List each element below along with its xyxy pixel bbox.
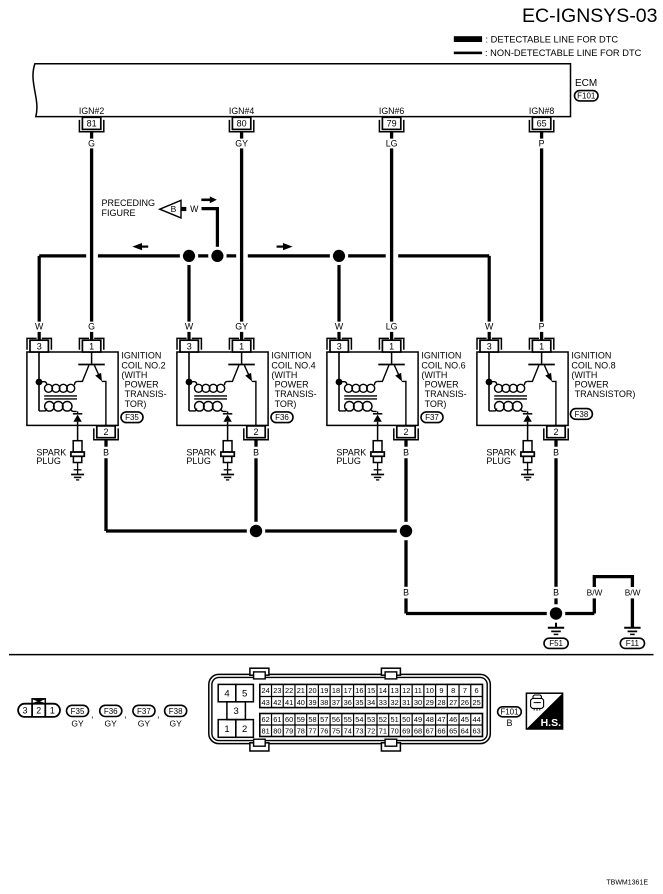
svg-text:B: B bbox=[553, 588, 559, 598]
harness view flag bbox=[32, 699, 45, 704]
svg-text:W: W bbox=[335, 322, 344, 332]
svg-text:F36: F36 bbox=[104, 707, 118, 716]
spark plug wire, coil NO.8 bbox=[527, 426, 529, 441]
svg-text:F35: F35 bbox=[125, 413, 139, 422]
svg-text:37: 37 bbox=[332, 698, 340, 707]
svg-text:77: 77 bbox=[308, 726, 316, 735]
svg-text:78: 78 bbox=[297, 726, 305, 735]
svg-text:B: B bbox=[103, 448, 109, 458]
svg-text:B/W: B/W bbox=[587, 588, 603, 598]
flow arrow right (on bus) bbox=[283, 243, 293, 250]
svg-text:43: 43 bbox=[262, 698, 270, 707]
svg-text:(WITH: (WITH bbox=[421, 370, 447, 380]
ground F51 bbox=[555, 614, 557, 628]
junction dot bus/coil2 bbox=[180, 247, 198, 265]
svg-text:62: 62 bbox=[262, 715, 270, 724]
svg-text:26: 26 bbox=[461, 698, 469, 707]
svg-text:76: 76 bbox=[320, 726, 328, 735]
spark plug wire, coil NO.4 bbox=[227, 426, 229, 441]
wire B/W right bbox=[631, 578, 634, 587]
svg-text:56: 56 bbox=[332, 715, 340, 724]
junction dot bus/W wire bbox=[208, 247, 226, 265]
svg-text:33: 33 bbox=[379, 698, 387, 707]
svg-text:65: 65 bbox=[449, 726, 457, 735]
svg-text:W: W bbox=[190, 204, 199, 214]
svg-text:44: 44 bbox=[473, 715, 481, 724]
svg-text:4: 4 bbox=[224, 688, 229, 699]
internal junction dot, coil NO.2 bbox=[36, 379, 43, 386]
svg-text:F37: F37 bbox=[137, 707, 151, 716]
svg-text:B: B bbox=[553, 448, 559, 458]
svg-text:G: G bbox=[88, 138, 95, 148]
svg-text:19: 19 bbox=[320, 686, 328, 695]
wire B from pin 2, coil NO.8 bbox=[554, 440, 557, 447]
svg-text:60: 60 bbox=[285, 715, 293, 724]
svg-text:49: 49 bbox=[414, 715, 422, 724]
power transistor, coil NO.8 bbox=[541, 352, 543, 364]
pin 1 of coil NO.6 bbox=[379, 338, 389, 349]
svg-text:GY: GY bbox=[235, 138, 248, 148]
svg-text:TOR): TOR) bbox=[275, 399, 297, 409]
svg-text:41: 41 bbox=[285, 698, 293, 707]
svg-text:IGNITION: IGNITION bbox=[271, 351, 311, 361]
svg-text:31: 31 bbox=[402, 698, 410, 707]
B/W bracket top wire bbox=[594, 577, 632, 579]
svg-text:GY: GY bbox=[235, 322, 248, 332]
ground F11 bbox=[624, 627, 640, 629]
svg-text:28: 28 bbox=[437, 698, 445, 707]
transformer core, coil NO.6 bbox=[344, 395, 377, 397]
svg-text:21: 21 bbox=[297, 686, 305, 695]
spark plug ground, coil NO.8 bbox=[521, 474, 534, 476]
svg-text:(WITH: (WITH bbox=[121, 370, 147, 380]
svg-text:F11: F11 bbox=[626, 639, 640, 648]
connector F37 bbox=[421, 412, 443, 423]
pin 2 of coil NO.8 bbox=[547, 426, 565, 438]
svg-text:80: 80 bbox=[237, 119, 247, 129]
svg-text:COIL NO.4: COIL NO.4 bbox=[271, 360, 315, 370]
wire W drop to coil pin 3 at x=189.0 bbox=[187, 256, 190, 322]
svg-text:IGNITION: IGNITION bbox=[121, 351, 161, 361]
svg-text:F51: F51 bbox=[549, 639, 563, 648]
svg-text:IGNITION: IGNITION bbox=[571, 351, 611, 361]
svg-text:22: 22 bbox=[285, 686, 293, 695]
transformer core, coil NO.8 bbox=[494, 395, 527, 397]
ignition coil NO.4 module box bbox=[177, 352, 268, 425]
connector F35 bbox=[121, 412, 143, 423]
svg-text:2: 2 bbox=[103, 427, 108, 437]
ignition coil secondary winding, coil NO.2 bbox=[39, 408, 47, 411]
svg-text:1: 1 bbox=[389, 341, 394, 351]
svg-text:34: 34 bbox=[367, 698, 375, 707]
spark plug wire, coil NO.6 bbox=[377, 426, 379, 441]
wire B from pin 2, coil NO.4 bbox=[254, 440, 257, 447]
secondary output diode, coil NO.4 bbox=[227, 411, 229, 413]
internal wire from pin 3, coil NO.4 bbox=[188, 352, 190, 411]
svg-text:3: 3 bbox=[23, 706, 28, 716]
svg-text:W: W bbox=[35, 322, 44, 332]
internal wire from pin 3, coil NO.6 bbox=[338, 352, 340, 411]
svg-text:14: 14 bbox=[379, 686, 387, 695]
wire B from pin 2, coil NO.6 bbox=[404, 440, 407, 447]
svg-text:42: 42 bbox=[273, 698, 281, 707]
connector F38 bbox=[570, 409, 592, 420]
connector icon in H.S. bbox=[531, 698, 544, 708]
svg-text:F35: F35 bbox=[71, 707, 85, 716]
flow arrow right (top) bbox=[201, 199, 210, 202]
internal junction dot, coil NO.8 bbox=[486, 379, 493, 386]
wire G from pin 81 bbox=[90, 132, 93, 139]
svg-text:PLUG: PLUG bbox=[36, 456, 61, 466]
svg-text:W: W bbox=[185, 322, 194, 332]
legend detectable line bbox=[454, 36, 482, 42]
secondary output diode, coil NO.8 bbox=[527, 411, 529, 413]
svg-text:2: 2 bbox=[403, 427, 408, 437]
svg-text:52: 52 bbox=[379, 715, 387, 724]
svg-text:2: 2 bbox=[36, 706, 41, 716]
svg-text:9: 9 bbox=[439, 686, 443, 695]
svg-text:TRANSIS-: TRANSIS- bbox=[425, 389, 467, 399]
svg-text:3: 3 bbox=[234, 706, 239, 717]
junction dot B bus/coil NO.4 bbox=[247, 522, 266, 541]
label gap for B on coil NO.8 wire bbox=[550, 587, 563, 599]
svg-text:35: 35 bbox=[355, 698, 363, 707]
svg-text:17: 17 bbox=[344, 686, 352, 695]
svg-text:: NON-DETECTABLE LINE FOR DTC: : NON-DETECTABLE LINE FOR DTC bbox=[485, 48, 642, 58]
svg-text:TRANSISTOR): TRANSISTOR) bbox=[575, 389, 636, 399]
connector F36 bbox=[271, 412, 293, 423]
wire W drop to coil pin 3 at x=39.2 bbox=[38, 256, 41, 322]
svg-text:81: 81 bbox=[87, 119, 97, 129]
H.S. symbol bbox=[526, 693, 562, 729]
svg-text:F101: F101 bbox=[500, 708, 519, 717]
transformer core, coil NO.4 bbox=[194, 395, 227, 397]
connector key cells 4 5 3 1 2 bbox=[218, 684, 236, 701]
svg-text:GY: GY bbox=[169, 719, 182, 729]
ignition coil NO.6 module box bbox=[327, 352, 418, 425]
svg-text:8: 8 bbox=[451, 686, 455, 695]
svg-text:71: 71 bbox=[379, 726, 387, 735]
svg-text:46: 46 bbox=[449, 715, 457, 724]
svg-text:11: 11 bbox=[414, 686, 422, 695]
spark plug wire, coil NO.2 bbox=[77, 426, 79, 441]
svg-text:32: 32 bbox=[390, 698, 398, 707]
svg-text:1: 1 bbox=[224, 724, 229, 735]
wire B/W left bbox=[593, 598, 596, 613]
svg-text:(WITH: (WITH bbox=[271, 370, 297, 380]
spark plug ground, coil NO.4 bbox=[221, 474, 234, 476]
connector F37 (GY) bbox=[133, 705, 155, 716]
pin 1 of coil NO.8 bbox=[529, 338, 539, 349]
svg-text:F36: F36 bbox=[275, 413, 289, 422]
svg-text:69: 69 bbox=[402, 726, 410, 735]
svg-text:1: 1 bbox=[50, 706, 55, 716]
svg-text:12: 12 bbox=[402, 686, 410, 695]
svg-text:39: 39 bbox=[308, 698, 316, 707]
svg-text:10: 10 bbox=[426, 686, 434, 695]
svg-text:13: 13 bbox=[390, 686, 398, 695]
svg-text:74: 74 bbox=[344, 726, 352, 735]
svg-text:: DETECTABLE LINE FOR DTC: : DETECTABLE LINE FOR DTC bbox=[486, 35, 619, 45]
spark plug, coil NO.4 bbox=[223, 441, 232, 452]
wire W drop to coil pin 3 at x=489.2 bbox=[488, 256, 491, 322]
svg-text:COIL NO.8: COIL NO.8 bbox=[571, 360, 615, 370]
svg-text:F38: F38 bbox=[169, 707, 183, 716]
svg-text:TBWM1361E: TBWM1361E bbox=[606, 880, 648, 887]
svg-text:COIL NO.2: COIL NO.2 bbox=[121, 360, 165, 370]
svg-text:79: 79 bbox=[387, 119, 397, 129]
svg-text:2: 2 bbox=[242, 724, 247, 735]
wire B down from junction bbox=[404, 531, 407, 587]
svg-text:FIGURE: FIGURE bbox=[102, 208, 136, 218]
secondary output diode, coil NO.6 bbox=[377, 411, 379, 413]
connector F101 (ECM) bbox=[575, 91, 599, 101]
svg-text:27: 27 bbox=[449, 698, 457, 707]
svg-text:B: B bbox=[403, 448, 409, 458]
pin 3 of coil NO.4 bbox=[177, 338, 187, 349]
svg-text:20: 20 bbox=[308, 686, 316, 695]
power transistor, coil NO.4 bbox=[241, 352, 243, 364]
svg-text:G: G bbox=[88, 322, 95, 332]
svg-text:IGNITION: IGNITION bbox=[421, 351, 461, 361]
svg-text:1: 1 bbox=[89, 341, 94, 351]
svg-text:24: 24 bbox=[262, 686, 270, 695]
svg-text:18: 18 bbox=[332, 686, 340, 695]
ignition coil secondary winding, coil NO.8 bbox=[489, 408, 497, 411]
svg-text:63: 63 bbox=[473, 726, 481, 735]
svg-text:40: 40 bbox=[297, 698, 305, 707]
svg-text:B: B bbox=[506, 718, 512, 728]
svg-text:POWER: POWER bbox=[425, 380, 460, 390]
ECM connector body bbox=[209, 674, 491, 743]
spark plug, coil NO.8 bbox=[523, 441, 532, 452]
svg-text:57: 57 bbox=[320, 715, 328, 724]
svg-text:B/W: B/W bbox=[625, 588, 641, 598]
svg-text:66: 66 bbox=[437, 726, 445, 735]
svg-text:F38: F38 bbox=[575, 410, 589, 419]
svg-text:51: 51 bbox=[390, 715, 398, 724]
svg-text:PLUG: PLUG bbox=[186, 456, 211, 466]
svg-text:IGN#8: IGN#8 bbox=[529, 106, 555, 116]
pin 3 of coil NO.6 bbox=[327, 338, 337, 349]
svg-text:64: 64 bbox=[461, 726, 469, 735]
svg-text:LG: LG bbox=[386, 138, 398, 148]
svg-text:7: 7 bbox=[463, 686, 467, 695]
svg-text:67: 67 bbox=[426, 726, 434, 735]
junction dot B bus/coil NO.6 bbox=[397, 522, 416, 541]
connector F38 (GY) bbox=[165, 705, 187, 716]
svg-text:POWER: POWER bbox=[125, 380, 160, 390]
ignition coil NO.2 module box bbox=[27, 352, 118, 425]
svg-text:GY: GY bbox=[138, 719, 151, 729]
ECM box bbox=[33, 64, 571, 117]
wire P from pin 65 bbox=[540, 132, 543, 139]
connector F35 (GY) bbox=[67, 705, 89, 716]
wire LG from pin 79 bbox=[390, 132, 393, 139]
svg-text:3: 3 bbox=[487, 341, 492, 351]
svg-text:GY: GY bbox=[105, 719, 118, 729]
svg-text:TRANSIS-: TRANSIS- bbox=[275, 389, 317, 399]
spark plug ground, coil NO.6 bbox=[371, 474, 384, 476]
svg-text:B: B bbox=[171, 204, 177, 214]
svg-text:ECM: ECM bbox=[575, 78, 597, 89]
svg-text:F37: F37 bbox=[425, 413, 439, 422]
svg-text:1: 1 bbox=[539, 341, 544, 351]
svg-text:TOR): TOR) bbox=[125, 399, 147, 409]
pin 3 of coil NO.2 bbox=[27, 338, 37, 349]
internal junction dot, coil NO.4 bbox=[186, 379, 193, 386]
svg-text:30: 30 bbox=[414, 698, 422, 707]
ignition coil NO.8 module box bbox=[477, 352, 568, 425]
pin 1 of coil NO.2 bbox=[79, 338, 89, 349]
svg-text:45: 45 bbox=[461, 715, 469, 724]
junction dot bus/coil3 bbox=[330, 247, 348, 265]
internal wire from pin 3, coil NO.8 bbox=[488, 352, 490, 411]
svg-text:15: 15 bbox=[367, 686, 375, 695]
svg-text:81: 81 bbox=[262, 726, 270, 735]
spark plug, coil NO.6 bbox=[373, 441, 382, 452]
svg-text:B: B bbox=[253, 448, 259, 458]
svg-text:16: 16 bbox=[355, 686, 363, 695]
svg-text:POWER: POWER bbox=[575, 380, 610, 390]
svg-text:EC-IGNSYS-03: EC-IGNSYS-03 bbox=[522, 5, 657, 27]
connector F101 (bottom) bbox=[498, 707, 522, 717]
svg-text:68: 68 bbox=[414, 726, 422, 735]
spark plug ground, coil NO.2 bbox=[71, 474, 84, 476]
svg-text:36: 36 bbox=[344, 698, 352, 707]
W bus horizontal wire bbox=[39, 254, 86, 257]
pin 3 of coil NO.8 bbox=[477, 338, 487, 349]
svg-text:55: 55 bbox=[344, 715, 352, 724]
secondary output diode, coil NO.2 bbox=[77, 411, 79, 413]
svg-text:IGN#6: IGN#6 bbox=[379, 106, 405, 116]
legend non-detectable line bbox=[454, 52, 482, 55]
lower B bus to grounds bbox=[406, 612, 594, 615]
svg-text:29: 29 bbox=[426, 698, 434, 707]
separator line bbox=[9, 654, 654, 656]
ignition coil primary winding, coil NO.2 bbox=[39, 382, 47, 386]
svg-text:58: 58 bbox=[308, 715, 316, 724]
small connector 3-2-1 bbox=[18, 704, 60, 717]
svg-text:B: B bbox=[403, 588, 409, 598]
internal junction dot, coil NO.6 bbox=[336, 379, 343, 386]
svg-text:P: P bbox=[539, 322, 545, 332]
svg-text:75: 75 bbox=[332, 726, 340, 735]
svg-text:50: 50 bbox=[402, 715, 410, 724]
svg-text:,: , bbox=[157, 710, 160, 720]
svg-text:(WITH: (WITH bbox=[571, 370, 597, 380]
svg-text:F101: F101 bbox=[577, 92, 596, 101]
wire B from pin 2, coil NO.2 bbox=[104, 440, 107, 447]
svg-text:25: 25 bbox=[473, 698, 481, 707]
svg-text:59: 59 bbox=[297, 715, 305, 724]
svg-text:IGN#2: IGN#2 bbox=[79, 106, 105, 116]
svg-text:PLUG: PLUG bbox=[336, 456, 361, 466]
svg-text:2: 2 bbox=[553, 427, 558, 437]
svg-text:IGN#4: IGN#4 bbox=[229, 106, 255, 116]
wire W drop to coil pin 3 at x=339.0 bbox=[337, 256, 340, 322]
svg-text:1: 1 bbox=[239, 341, 244, 351]
ignition coil primary winding, coil NO.6 bbox=[339, 382, 347, 386]
svg-text:65: 65 bbox=[537, 119, 547, 129]
flow arrow left (on bus) bbox=[132, 243, 142, 250]
pin 2 of coil NO.2 bbox=[97, 426, 115, 438]
ignition coil secondary winding, coil NO.6 bbox=[339, 408, 347, 411]
svg-text:23: 23 bbox=[273, 686, 281, 695]
wire W from preceding figure bbox=[202, 209, 218, 256]
pin 1 of coil NO.4 bbox=[229, 338, 239, 349]
svg-text:PLUG: PLUG bbox=[486, 456, 511, 466]
svg-text:54: 54 bbox=[355, 715, 363, 724]
svg-text:H.S.: H.S. bbox=[541, 717, 562, 729]
svg-text:72: 72 bbox=[367, 726, 375, 735]
svg-text:80: 80 bbox=[273, 726, 281, 735]
ignition coil primary winding, coil NO.8 bbox=[489, 382, 497, 386]
svg-text:47: 47 bbox=[437, 715, 445, 724]
svg-text:PRECEDING: PRECEDING bbox=[102, 198, 156, 208]
B bus horizontal wire bbox=[106, 529, 406, 532]
power transistor, coil NO.6 bbox=[391, 352, 393, 364]
svg-text:,: , bbox=[91, 710, 94, 720]
transformer core, coil NO.2 bbox=[44, 395, 77, 397]
ignition coil secondary winding, coil NO.4 bbox=[189, 408, 197, 411]
svg-text:3: 3 bbox=[187, 341, 192, 351]
svg-text:70: 70 bbox=[390, 726, 398, 735]
svg-text:53: 53 bbox=[367, 715, 375, 724]
svg-text:GY: GY bbox=[71, 719, 84, 729]
pin 2 of coil NO.6 bbox=[397, 426, 415, 438]
svg-text:POWER: POWER bbox=[275, 380, 310, 390]
svg-text:61: 61 bbox=[273, 715, 281, 724]
spark plug, coil NO.2 bbox=[73, 441, 82, 452]
svg-text:6: 6 bbox=[475, 686, 479, 695]
power transistor, coil NO.2 bbox=[91, 352, 93, 364]
pin 2 of coil NO.4 bbox=[247, 426, 265, 438]
svg-text:3: 3 bbox=[37, 341, 42, 351]
svg-text:P: P bbox=[539, 138, 545, 148]
connector tabs bbox=[250, 668, 269, 675]
svg-text:TOR): TOR) bbox=[425, 399, 447, 409]
svg-text:W: W bbox=[485, 322, 494, 332]
connector F36 (GY) bbox=[100, 705, 122, 716]
off-page connector triangle B bbox=[160, 200, 181, 218]
svg-text:48: 48 bbox=[426, 715, 434, 724]
svg-text:TRANSIS-: TRANSIS- bbox=[125, 389, 167, 399]
svg-text:LG: LG bbox=[386, 322, 398, 332]
svg-text:38: 38 bbox=[320, 698, 328, 707]
svg-text:5: 5 bbox=[242, 688, 247, 699]
wire GY from pin 80 bbox=[240, 132, 243, 139]
svg-text:73: 73 bbox=[355, 726, 363, 735]
svg-text:2: 2 bbox=[253, 427, 258, 437]
svg-text:79: 79 bbox=[285, 726, 293, 735]
svg-text:,: , bbox=[124, 710, 127, 720]
ECM connector pin grid bbox=[260, 684, 483, 707]
ignition coil primary winding, coil NO.4 bbox=[189, 382, 197, 386]
internal wire from pin 3, coil NO.2 bbox=[38, 352, 40, 411]
svg-text:3: 3 bbox=[337, 341, 342, 351]
svg-text:COIL NO.6: COIL NO.6 bbox=[421, 360, 465, 370]
